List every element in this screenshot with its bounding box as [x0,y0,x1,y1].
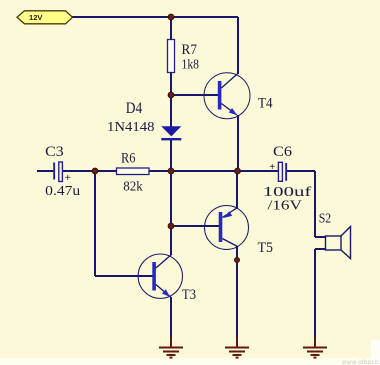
svg-text:82k: 82k [123,180,143,195]
wire: speaker to ground [314,249,316,347]
svg-text:S2: S2 [319,211,332,226]
svg-text:C6: C6 [273,144,293,160]
wire: speaker bottom stub [315,248,326,250]
svg-text:/16V: /16V [268,199,303,214]
wire: T5 collector node to ground [236,260,238,347]
wire: R7 bottom to node [170,72,172,95]
transistor T5 [205,206,249,250]
svg-text:R7: R7 [182,42,198,58]
transistor T3 [138,254,182,298]
wire: diode cathode to bus [170,140,172,171]
svg-text:T5: T5 [258,240,274,256]
wire: diode anode [170,95,172,127]
power flag 12V [17,11,73,24]
junction: R6 / D4 / bus [168,168,174,174]
wire: T3 collector riser [170,226,172,255]
wire: T4 emitter drop [237,115,239,171]
ground (T5 collector) [225,337,249,358]
ground (speaker) [303,337,327,358]
junction: T4 emitter / T5 emitter / C6 [235,168,241,174]
wire: right drop from rail to T4 collector [237,17,239,74]
svg-text:C3: C3 [45,144,64,160]
wire: T5 base [171,225,219,227]
wire: C6 to corner [287,170,315,172]
svg-text:R6: R6 [121,151,136,167]
svg-text:D4: D4 [126,100,143,117]
svg-text:+: + [269,162,275,173]
wire: rail to R7 top [170,17,172,40]
wire: T3 base [95,275,153,277]
junction: rail / R7 [168,14,174,20]
capacitor C6 [269,162,287,182]
wire: input stub to C3 [37,170,54,172]
wire: T4 base [171,94,218,96]
resistor R6 [117,168,150,175]
svg-text:www.jdbpcb.com: www.jdbpcb.com [341,360,380,365]
wire: T3 emitter to ground [170,297,172,347]
wire: top power rail [72,16,238,18]
svg-text:0.47u: 0.47u [45,184,80,199]
junction: R7 / D4 / T4 base [168,92,174,98]
resistor R7 [168,40,175,73]
wire: corner down to speaker [314,171,316,237]
capacitor C3 [53,162,71,184]
junction: T5 collector pin [235,258,240,263]
junction: T3 collector / T5 base [168,223,174,229]
transistor T4 [204,73,250,119]
diode D4 [161,126,181,139]
svg-text:T4: T4 [258,96,273,112]
wire: T5 emitter riser [236,171,238,208]
svg-text:1k8: 1k8 [182,58,200,73]
svg-text:12V: 12V [29,13,43,22]
wire: speaker top stub [315,236,326,238]
svg-text:+: + [65,173,71,184]
wire: main bus C3 to C6 [63,170,279,172]
wire: T5 collector drop [236,246,238,260]
ground (T3 emitter) [159,337,183,358]
wire: node A drop to T3 base level [94,171,96,276]
svg-text:T3: T3 [182,287,196,303]
junction: C3 / R6 / T3 base [92,168,98,174]
speaker S2 [326,227,351,259]
wire: bus down to T5 base node [170,171,172,226]
svg-text:1N4148: 1N4148 [107,120,155,135]
